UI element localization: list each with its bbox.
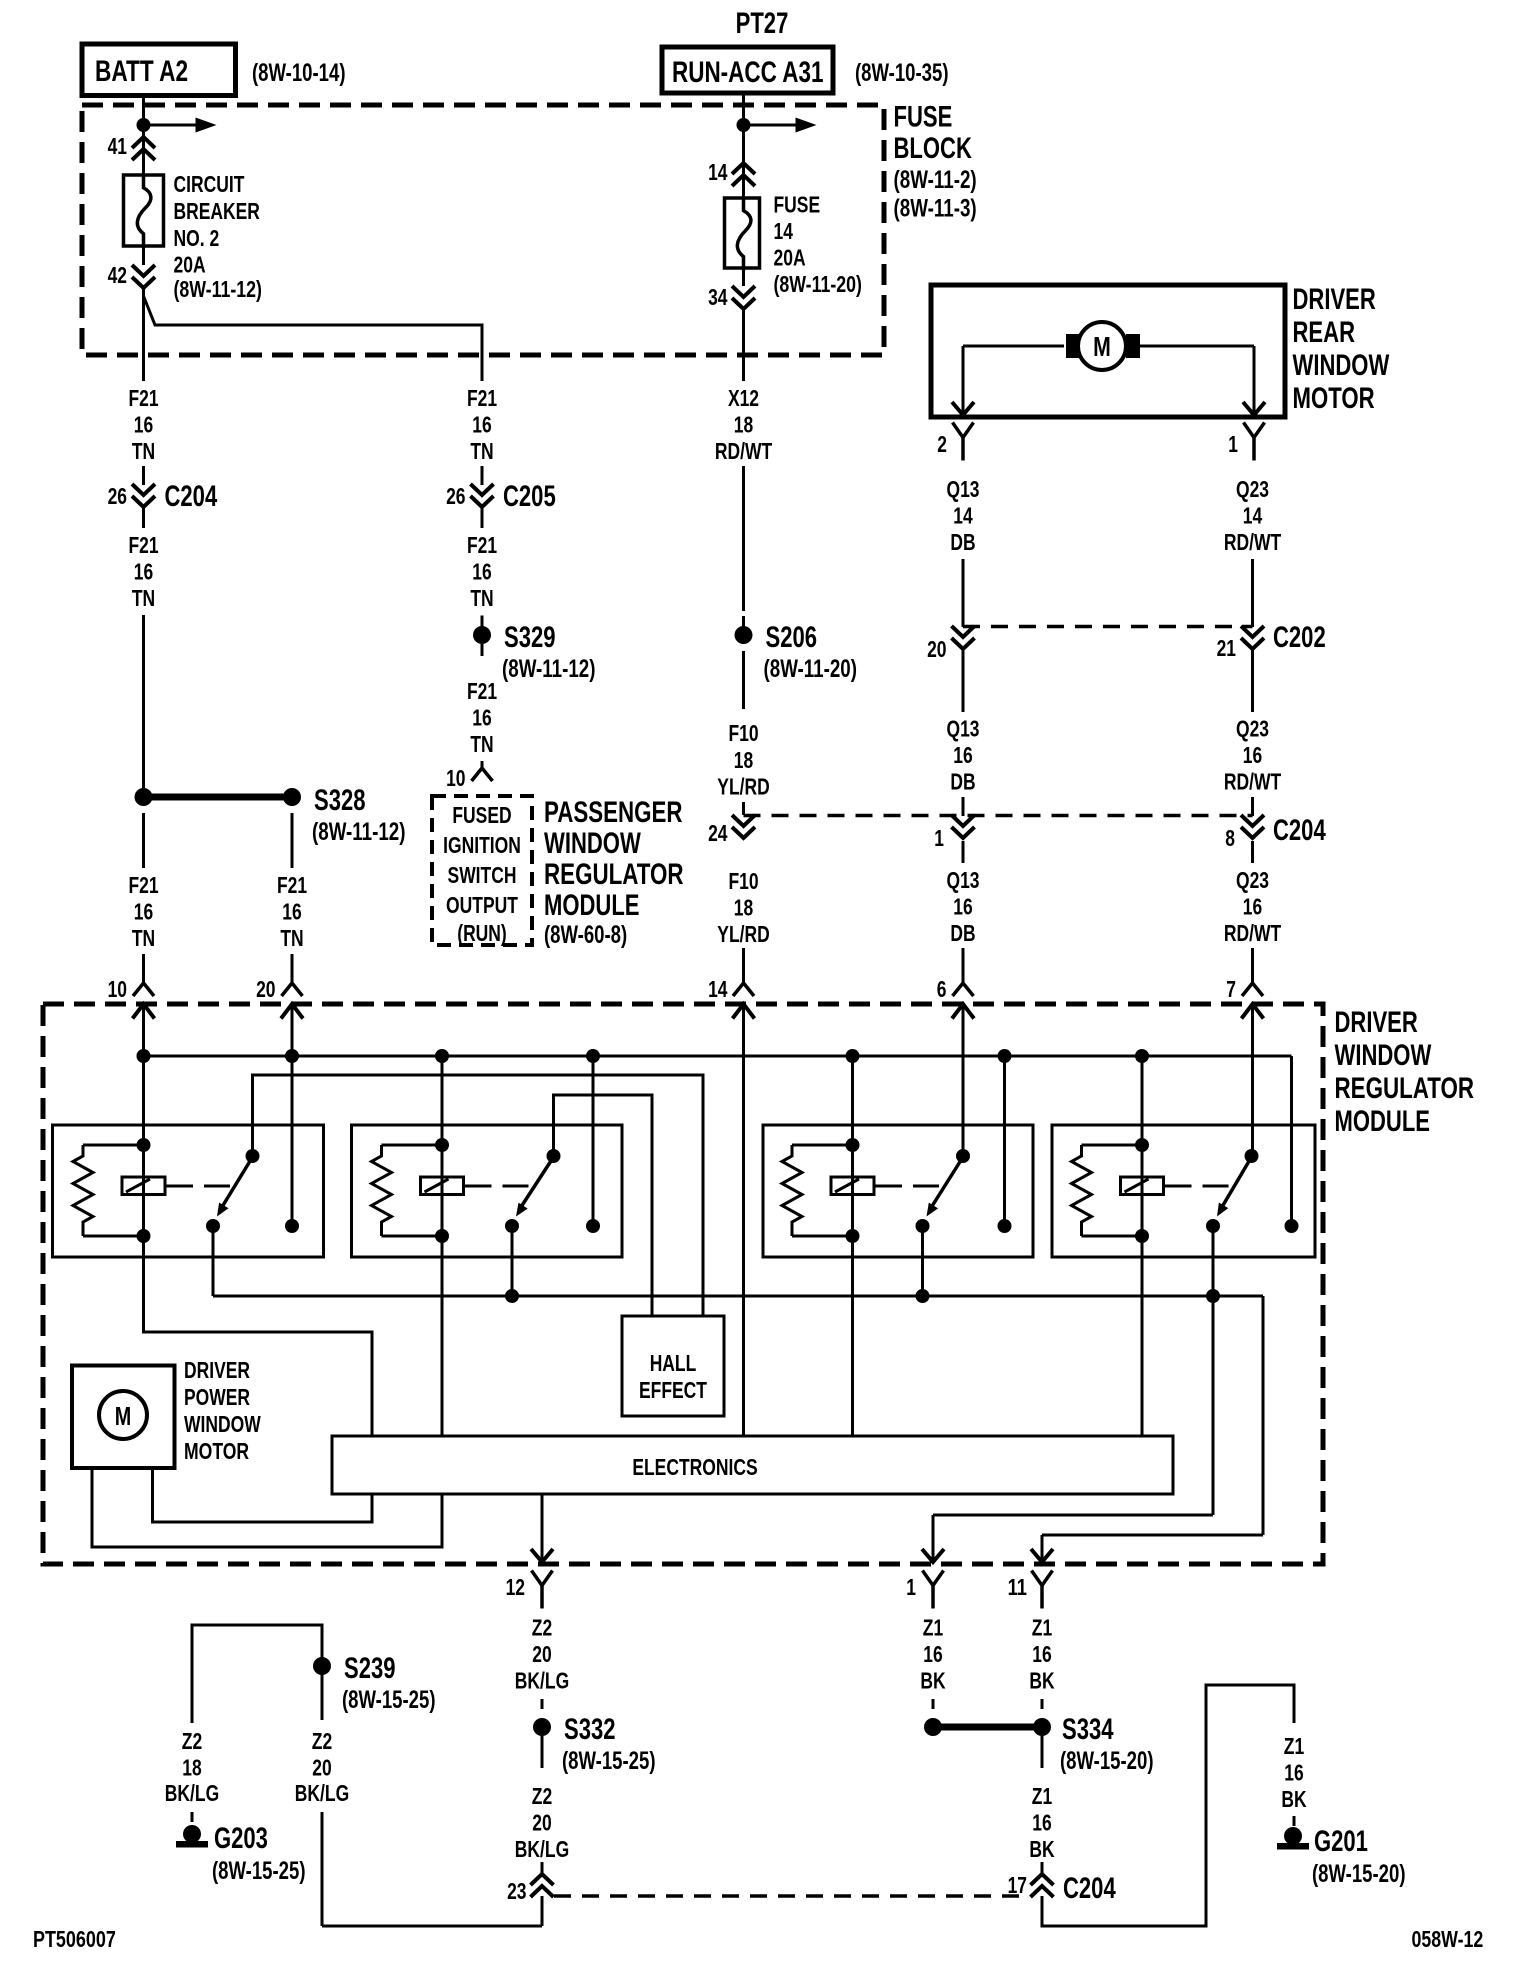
svg-text:20: 20 [256,976,275,1002]
svg-text:16: 16 [1032,1810,1051,1836]
svg-text:WINDOW: WINDOW [544,827,641,860]
svg-text:M: M [115,1401,132,1431]
svg-text:EFFECT: EFFECT [639,1377,707,1403]
svg-text:BK: BK [1029,1668,1054,1694]
svg-text:16: 16 [1284,1760,1303,1786]
svg-text:20: 20 [532,1810,551,1836]
svg-text:41: 41 [108,133,128,159]
svg-text:(RUN): (RUN) [457,920,507,946]
svg-text:PT506007: PT506007 [33,1926,116,1952]
svg-text:BK: BK [1029,1836,1054,1862]
svg-text:FUSED: FUSED [452,802,511,828]
svg-text:(8W-11-3): (8W-11-3) [894,195,977,223]
svg-text:MOTOR: MOTOR [1293,382,1375,415]
svg-text:26: 26 [108,483,127,509]
svg-text:(8W-11-20): (8W-11-20) [774,271,862,297]
svg-text:F21: F21 [467,385,497,411]
svg-text:18: 18 [734,412,754,438]
svg-text:17: 17 [1008,1872,1027,1898]
svg-text:18: 18 [734,895,754,921]
svg-text:RD/WT: RD/WT [1224,529,1281,555]
svg-text:BK/LG: BK/LG [165,1780,219,1806]
svg-text:BK: BK [920,1668,945,1694]
svg-text:CIRCUIT: CIRCUIT [174,171,245,197]
svg-text:20: 20 [532,1641,551,1667]
svg-text:16: 16 [1243,894,1262,920]
svg-text:MODULE: MODULE [1335,1105,1431,1138]
svg-text:FUSE: FUSE [894,101,953,134]
svg-text:BATT A2: BATT A2 [95,55,188,88]
svg-text:POWER: POWER [184,1384,250,1410]
svg-text:Z1: Z1 [923,1615,944,1641]
svg-text:7: 7 [1226,976,1236,1002]
svg-text:S328: S328 [314,784,366,817]
svg-text:(8W-15-25): (8W-15-25) [562,1747,656,1775]
svg-text:16: 16 [1032,1641,1051,1667]
svg-text:26: 26 [446,483,465,509]
svg-text:(8W-15-20): (8W-15-20) [1060,1747,1154,1775]
svg-text:FUSE: FUSE [774,192,821,218]
svg-text:16: 16 [1243,742,1262,768]
svg-text:11: 11 [1008,1574,1028,1600]
svg-text:Q13: Q13 [947,867,980,893]
svg-text:DB: DB [950,920,975,946]
svg-text:RD/WT: RD/WT [1224,920,1281,946]
svg-text:16: 16 [282,899,301,925]
svg-text:MOTOR: MOTOR [184,1438,249,1464]
svg-text:S206: S206 [766,621,818,654]
svg-text:C204: C204 [1273,814,1326,847]
svg-text:18: 18 [182,1755,202,1781]
svg-text:WINDOW: WINDOW [1293,349,1390,382]
svg-text:DRIVER: DRIVER [1293,283,1377,316]
svg-text:16: 16 [472,559,491,585]
svg-text:14: 14 [953,503,973,529]
svg-text:F10: F10 [728,720,758,746]
svg-text:SWITCH: SWITCH [448,862,517,888]
svg-text:Z2: Z2 [532,1783,552,1809]
svg-text:G201: G201 [1314,1825,1368,1858]
svg-text:(8W-11-2): (8W-11-2) [894,166,977,194]
svg-text:20: 20 [927,636,946,662]
svg-text:TN: TN [132,925,155,951]
svg-text:23: 23 [507,1878,526,1904]
svg-text:Q13: Q13 [947,476,980,502]
svg-text:10: 10 [446,765,465,791]
svg-text:1: 1 [1228,431,1238,457]
svg-text:10: 10 [108,976,127,1002]
svg-text:14: 14 [774,218,794,244]
svg-text:HALL: HALL [650,1350,697,1376]
svg-text:Q23: Q23 [1236,867,1269,893]
svg-text:G203: G203 [214,1822,268,1855]
svg-text:Q23: Q23 [1236,716,1269,742]
svg-text:C202: C202 [1273,621,1326,654]
svg-text:REGULATOR: REGULATOR [544,858,684,891]
svg-text:C204: C204 [165,480,218,513]
svg-text:(8W-11-12): (8W-11-12) [174,276,262,302]
svg-text:F21: F21 [467,532,497,558]
svg-text:BK/LG: BK/LG [515,1836,569,1862]
svg-text:OUTPUT: OUTPUT [446,892,518,918]
svg-text:BLOCK: BLOCK [894,132,973,165]
svg-text:REAR: REAR [1293,316,1356,349]
svg-text:DRIVER: DRIVER [1335,1006,1419,1039]
svg-text:TN: TN [132,438,155,464]
svg-text:MODULE: MODULE [544,889,640,922]
svg-text:YL/RD: YL/RD [717,921,769,947]
svg-text:34: 34 [708,284,728,310]
svg-text:IGNITION: IGNITION [443,832,521,858]
svg-text:S329: S329 [504,621,556,654]
svg-text:BK/LG: BK/LG [295,1780,349,1806]
svg-text:TN: TN [470,585,493,611]
svg-text:6: 6 [937,976,947,1002]
svg-text:1: 1 [934,825,944,851]
svg-text:14: 14 [708,159,728,185]
svg-text:Z2: Z2 [312,1728,332,1754]
svg-text:WINDOW: WINDOW [1335,1039,1432,1072]
svg-text:20: 20 [312,1755,331,1781]
svg-text:(8W-11-20): (8W-11-20) [764,655,858,683]
svg-text:Q13: Q13 [947,716,980,742]
svg-text:TN: TN [280,925,303,951]
svg-text:NO. 2: NO. 2 [174,225,220,251]
svg-text:X12: X12 [728,385,759,411]
svg-text:Q23: Q23 [1236,476,1269,502]
svg-text:S332: S332 [564,1713,616,1746]
svg-text:BK: BK [1281,1786,1306,1812]
svg-text:PT27: PT27 [736,7,789,40]
svg-text:M: M [1093,331,1111,362]
svg-text:16: 16 [134,412,153,438]
svg-text:Z1: Z1 [1032,1783,1053,1809]
svg-text:WINDOW: WINDOW [184,1411,261,1437]
svg-text:16: 16 [472,705,491,731]
svg-text:F21: F21 [467,678,497,704]
svg-text:8: 8 [1225,825,1235,851]
svg-text:42: 42 [108,262,127,288]
svg-text:16: 16 [134,899,153,925]
svg-text:21: 21 [1217,635,1237,661]
svg-text:F21: F21 [128,385,158,411]
svg-text:12: 12 [506,1574,525,1600]
svg-text:20A: 20A [774,245,806,271]
svg-text:(8W-11-12): (8W-11-12) [312,818,406,846]
svg-text:(8W-10-35): (8W-10-35) [855,59,949,87]
svg-text:TN: TN [470,731,493,757]
svg-text:1: 1 [906,1574,916,1600]
svg-text:ELECTRONICS: ELECTRONICS [632,1454,757,1480]
svg-text:14: 14 [708,976,728,1002]
svg-text:18: 18 [734,747,754,773]
svg-text:S239: S239 [344,1652,396,1685]
svg-text:16: 16 [953,742,972,768]
svg-text:RUN-ACC A31: RUN-ACC A31 [672,56,824,89]
svg-text:PASSENGER: PASSENGER [544,796,683,829]
svg-text:(8W-10-14): (8W-10-14) [252,59,346,87]
svg-text:(8W-15-25): (8W-15-25) [342,1686,436,1714]
svg-text:14: 14 [1243,503,1263,529]
svg-text:RD/WT: RD/WT [1224,769,1281,795]
svg-text:DB: DB [950,529,975,555]
svg-text:DB: DB [950,769,975,795]
svg-text:BREAKER: BREAKER [174,198,261,224]
svg-text:F10: F10 [728,868,758,894]
svg-text:TN: TN [132,585,155,611]
svg-text:S334: S334 [1062,1713,1114,1746]
svg-text:20A: 20A [174,252,206,278]
svg-text:RD/WT: RD/WT [715,438,772,464]
svg-text:Z2: Z2 [182,1728,202,1754]
svg-text:2: 2 [937,431,947,457]
svg-text:058W-12: 058W-12 [1412,1926,1484,1952]
svg-text:REGULATOR: REGULATOR [1335,1072,1475,1105]
svg-text:DRIVER: DRIVER [184,1357,250,1383]
svg-text:F21: F21 [128,532,158,558]
svg-text:C205: C205 [503,480,556,513]
svg-text:(8W-60-8): (8W-60-8) [544,921,627,949]
svg-text:BK/LG: BK/LG [515,1668,569,1694]
svg-text:TN: TN [470,438,493,464]
svg-text:F21: F21 [128,872,158,898]
svg-text:YL/RD: YL/RD [717,774,769,800]
svg-text:Z2: Z2 [532,1615,552,1641]
svg-text:F21: F21 [277,872,307,898]
svg-text:16: 16 [953,894,972,920]
svg-text:(8W-11-12): (8W-11-12) [502,655,596,683]
svg-text:16: 16 [923,1641,942,1667]
svg-text:(8W-15-25): (8W-15-25) [212,1857,306,1885]
svg-text:C204: C204 [1063,1872,1116,1905]
svg-text:24: 24 [708,820,728,846]
svg-text:16: 16 [134,559,153,585]
svg-text:Z1: Z1 [1032,1615,1053,1641]
svg-text:16: 16 [472,412,491,438]
svg-text:Z1: Z1 [1284,1733,1305,1759]
svg-text:(8W-15-20): (8W-15-20) [1312,1860,1406,1888]
